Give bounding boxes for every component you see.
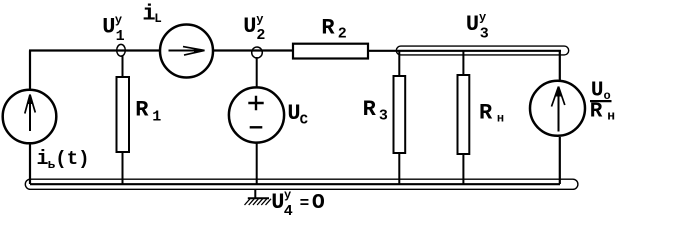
wire bottom rail conductor [30, 183, 560, 185]
svg-text:1: 1 [116, 28, 125, 45]
node U1 [117, 44, 126, 56]
svg-text:1: 1 [152, 109, 161, 126]
svg-text:R: R [479, 100, 493, 125]
resistor R3 [394, 76, 406, 153]
voltage source Uc [229, 87, 284, 142]
svg-text:R: R [321, 16, 335, 41]
svg-text:O: O [312, 191, 325, 215]
svg-text:2: 2 [338, 26, 347, 43]
svg-text:н: н [607, 109, 615, 124]
svg-text:R: R [590, 100, 603, 123]
wire right source top [559, 51, 561, 80]
node U2 [252, 47, 263, 58]
resistor R2 [293, 44, 368, 59]
svg-text:2: 2 [256, 27, 265, 44]
wire Rn bottom [462, 153, 464, 184]
svg-text:y: y [479, 11, 486, 25]
wire Rn top [462, 51, 464, 76]
wire top horizontal middle segment [213, 49, 294, 51]
node bus 0V bottom (stadium) [25, 179, 578, 189]
wire top horizontal left segment [29, 49, 160, 51]
wire R3 bottom [398, 152, 400, 184]
svg-text:U: U [102, 15, 115, 40]
ground [254, 189, 256, 198]
wire left source bottom [29, 143, 31, 184]
node bus U3 (stadium) [396, 46, 568, 55]
wire R3 top [398, 51, 400, 77]
svg-text:R: R [135, 98, 149, 123]
wire R1 top [122, 55, 124, 78]
svg-text:U: U [466, 12, 479, 37]
svg-text:R: R [363, 97, 377, 122]
svg-text:н: н [497, 112, 504, 126]
svg-text:y: y [256, 12, 263, 26]
svg-text:U: U [591, 79, 604, 102]
current source i_L [160, 25, 213, 78]
svg-text:3: 3 [379, 108, 388, 125]
wire top horizontal right segment [367, 50, 561, 52]
svg-text:=: = [300, 195, 310, 213]
svg-text:U: U [243, 14, 256, 39]
wire right source bottom [559, 137, 561, 184]
svg-text:4: 4 [284, 203, 293, 216]
svg-text:U: U [271, 190, 284, 215]
svg-text:3: 3 [480, 25, 489, 42]
svg-text:C: C [300, 113, 309, 129]
resistor R1 [117, 77, 130, 152]
wire Uc bottom [256, 142, 258, 184]
svg-text:y: y [115, 13, 122, 27]
svg-text:y: y [284, 188, 291, 202]
svg-text:L: L [154, 12, 162, 26]
wire Uc top [256, 57, 258, 88]
svg-text:(t): (t) [55, 148, 89, 170]
current source i_b(t) [3, 90, 57, 144]
wire R1 bottom [122, 151, 124, 184]
wire left source top [29, 51, 31, 91]
current source Uo/Rn [530, 81, 585, 136]
resistor Rn (load) [458, 75, 470, 154]
